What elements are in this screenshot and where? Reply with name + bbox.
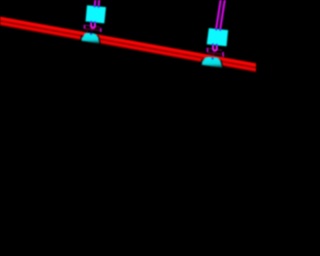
node: mast 1 wire-box junction right xyxy=(98,6,100,8)
wire: red track bottom bright rail xyxy=(0,23,258,71)
wire: red track base band xyxy=(0,21,258,69)
node: mast 1 foot junction xyxy=(90,33,92,35)
node: mast 2 foot junction xyxy=(212,58,214,60)
wire: left catenary wire of mast 2 xyxy=(216,0,221,29)
wire: right catenary wire of mast 2 xyxy=(220,0,225,29)
mast 2 foot top glint xyxy=(209,55,210,56)
mast 1 U hanger xyxy=(91,22,95,28)
mast 1 foot top glint xyxy=(87,30,88,31)
mast 1 hanger connector xyxy=(90,28,93,31)
node: mast 1 wire-box junction left xyxy=(94,5,96,7)
mast 2 right dash xyxy=(222,52,224,57)
mast 1 right dash xyxy=(100,28,102,32)
mast 2 U hanger xyxy=(213,44,217,51)
node: mast 2 wire-box junction right xyxy=(219,29,221,31)
wire: right catenary wire of mast 1 xyxy=(98,0,101,7)
mast 2 hanger connector xyxy=(213,51,214,56)
mast 1 box xyxy=(86,5,107,23)
mast 2 foot left edge shadow xyxy=(200,59,203,65)
mast 2 box xyxy=(207,28,228,46)
wire: red track top bright rail xyxy=(0,18,258,66)
mast 1 foot stepped base xyxy=(81,33,99,44)
mast 1 foot right edge shadow xyxy=(98,36,100,44)
mast 2 lower dark beam xyxy=(208,53,222,55)
mast 1 lower dark beam xyxy=(85,29,100,31)
mast 2 foot stepped base xyxy=(202,57,223,68)
node: mast 1 U-box junction right xyxy=(94,21,96,23)
node: mast 1 U-box junction left xyxy=(90,21,92,23)
mast 2 foot right edge shadow xyxy=(220,60,223,68)
mast 1 left dash xyxy=(83,25,85,29)
wire: left catenary wire of mast 1 xyxy=(94,0,97,7)
node: mast 2 wire-box junction left xyxy=(215,29,217,31)
mast 1 foot left edge shadow xyxy=(80,35,83,41)
node: mast 2 U-box junction left xyxy=(212,43,214,45)
mast 2 left dash xyxy=(206,48,208,53)
mast 2 upper dark beam xyxy=(208,49,222,51)
node: mast 2 U-box junction right xyxy=(216,44,218,46)
mast 1 upper dark beam xyxy=(86,25,100,27)
